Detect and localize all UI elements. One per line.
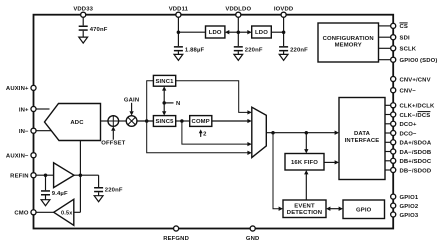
svg-text:AUXIN−: AUXIN−: [6, 154, 29, 160]
svg-text:VDDLDO: VDDLDO: [225, 7, 251, 13]
svg-text:DCO−: DCO−: [400, 131, 418, 137]
svg-text:SINC5: SINC5: [155, 119, 174, 125]
svg-text:DA−/SDOB: DA−/SDOB: [400, 150, 432, 156]
svg-text:220nF: 220nF: [245, 48, 263, 54]
svg-text:CMO: CMO: [14, 211, 28, 217]
svg-text:N: N: [176, 101, 180, 107]
svg-text:220nF: 220nF: [290, 48, 308, 54]
svg-text:CLK−/DCS: CLK−/DCS: [400, 113, 431, 119]
svg-text:LDO: LDO: [209, 30, 222, 36]
svg-text:DETECTION: DETECTION: [287, 210, 322, 216]
svg-text:GPIO2: GPIO2: [400, 204, 419, 210]
svg-text:DATA: DATA: [354, 131, 371, 137]
svg-text:IOVDD: IOVDD: [274, 7, 293, 13]
svg-text:220nF: 220nF: [105, 187, 123, 193]
svg-text:COMP: COMP: [192, 119, 210, 125]
svg-text:1.88µF: 1.88µF: [185, 48, 205, 54]
svg-text:IN−: IN−: [19, 129, 29, 135]
svg-text:CNV−: CNV−: [400, 89, 417, 95]
svg-text:2: 2: [203, 132, 207, 138]
svg-text:CNV+/CNV: CNV+/CNV: [400, 77, 431, 83]
svg-text:EVENT: EVENT: [294, 203, 315, 209]
svg-text:SCLK: SCLK: [400, 47, 417, 53]
svg-text:DB+/SDOC: DB+/SDOC: [400, 159, 432, 165]
svg-text:AUXIN+: AUXIN+: [6, 86, 29, 92]
svg-text:GND: GND: [246, 236, 260, 241]
svg-text:VDD11: VDD11: [169, 7, 189, 13]
svg-text:CONFIGURATION: CONFIGURATION: [323, 36, 374, 42]
svg-text:GPIO0 (SDO): GPIO0 (SDO): [400, 58, 438, 64]
svg-text:OFFSET: OFFSET: [101, 141, 125, 147]
svg-text:DB−/SDOD: DB−/SDOD: [400, 168, 432, 174]
svg-text:VDD33: VDD33: [73, 7, 93, 13]
svg-text:DA+/SDOA: DA+/SDOA: [400, 141, 432, 147]
svg-text:CLK+/DCLK: CLK+/DCLK: [400, 104, 435, 110]
svg-text:IN+: IN+: [19, 107, 29, 113]
svg-text:INTERFACE: INTERFACE: [345, 138, 380, 144]
svg-text:CS: CS: [400, 24, 408, 30]
svg-text:MEMORY: MEMORY: [335, 42, 362, 48]
svg-text:16K FIFO: 16K FIFO: [291, 160, 318, 166]
svg-text:SDI: SDI: [400, 36, 410, 42]
svg-text:GPIO1: GPIO1: [400, 195, 419, 201]
svg-text:LDO: LDO: [255, 30, 268, 36]
svg-text:REFIN: REFIN: [10, 174, 28, 180]
svg-text:REFGND: REFGND: [163, 236, 189, 241]
svg-text:9.4µF: 9.4µF: [52, 191, 68, 197]
svg-text:DCO+: DCO+: [400, 122, 418, 128]
svg-text:GPIO3: GPIO3: [400, 213, 419, 219]
svg-text:SINC1: SINC1: [155, 79, 174, 85]
svg-text:470nF: 470nF: [90, 27, 108, 33]
svg-text:0.5x: 0.5x: [61, 210, 73, 216]
svg-text:GPIO: GPIO: [356, 208, 372, 214]
svg-text:GAIN: GAIN: [124, 97, 139, 103]
svg-text:ADC: ADC: [70, 120, 84, 126]
